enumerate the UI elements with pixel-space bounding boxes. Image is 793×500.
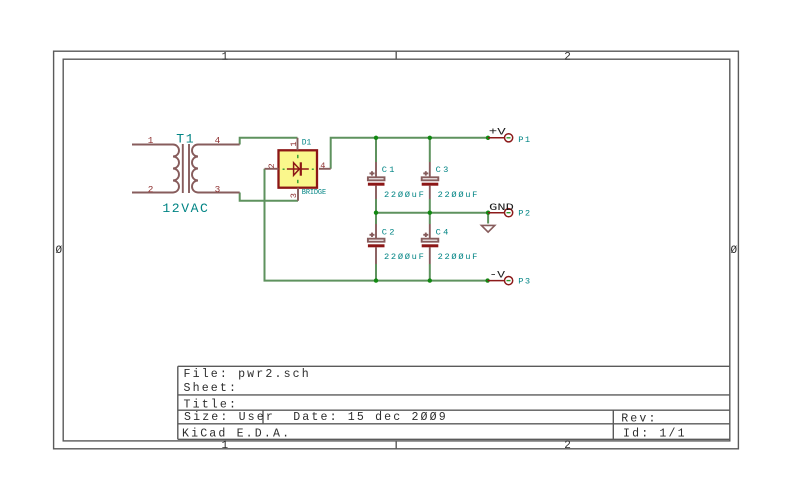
svg-text:1: 1 <box>148 135 154 146</box>
svg-text:C3: C3 <box>436 165 451 175</box>
svg-text:Sheet:: Sheet: <box>184 382 239 395</box>
svg-text:2: 2 <box>148 184 154 195</box>
svg-text:C4: C4 <box>436 227 451 237</box>
svg-text:P1: P1 <box>518 135 531 145</box>
svg-text:12VAC: 12VAC <box>162 201 209 216</box>
svg-text:2: 2 <box>564 440 571 452</box>
svg-text:Rev:: Rev: <box>621 413 657 426</box>
svg-text:+V: +V <box>489 126 506 137</box>
svg-text:2: 2 <box>267 163 277 168</box>
svg-text:1: 1 <box>222 51 229 63</box>
svg-text:2: 2 <box>564 51 571 63</box>
svg-text:4: 4 <box>320 161 325 171</box>
svg-text:22ØØuF: 22ØØuF <box>384 252 425 262</box>
svg-text:BRIDGE: BRIDGE <box>302 189 326 197</box>
svg-text:1: 1 <box>289 141 299 146</box>
svg-text:C1: C1 <box>382 165 397 175</box>
svg-text:4: 4 <box>215 135 221 146</box>
svg-text:GND: GND <box>489 202 514 213</box>
svg-text:Size: User: Size: User <box>184 411 275 424</box>
svg-text:1: 1 <box>222 440 229 452</box>
svg-text:Id: 1/1: Id: 1/1 <box>623 428 687 441</box>
svg-text:T1: T1 <box>176 131 195 146</box>
svg-text:22ØØuF: 22ØØuF <box>438 190 479 200</box>
svg-text:3: 3 <box>289 193 299 198</box>
svg-text:22ØØuF: 22ØØuF <box>384 190 425 200</box>
svg-text:C2: C2 <box>382 227 397 237</box>
svg-text:KiCad E.D.A.: KiCad E.D.A. <box>182 428 291 441</box>
svg-text:Ø: Ø <box>56 245 63 257</box>
svg-text:-V: -V <box>489 269 505 280</box>
svg-text:3: 3 <box>215 184 221 195</box>
svg-text:File: pwr2.sch: File: pwr2.sch <box>184 368 311 381</box>
svg-text:P3: P3 <box>518 277 531 287</box>
svg-text:Title:: Title: <box>184 399 239 412</box>
svg-text:22ØØuF: 22ØØuF <box>438 252 479 262</box>
svg-text:Date: 15 dec 2ØØ9: Date: 15 dec 2ØØ9 <box>293 411 448 424</box>
svg-text:D1: D1 <box>302 138 312 147</box>
svg-text:Ø: Ø <box>731 245 738 257</box>
svg-text:P2: P2 <box>518 208 531 218</box>
